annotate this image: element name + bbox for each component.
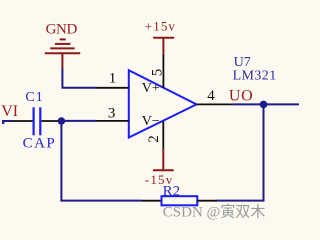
wire junction down to resistor xyxy=(61,121,142,201)
pin 3 xyxy=(96,120,129,122)
pin 1 xyxy=(96,87,128,89)
wire junction to pin3 xyxy=(61,120,96,122)
svg-text:UO: UO xyxy=(229,87,254,104)
capacitor C1 left pin xyxy=(13,120,33,122)
resistor R2 left pin xyxy=(142,200,162,202)
svg-text:3: 3 xyxy=(108,106,116,122)
capacitor C1 plates xyxy=(34,107,41,135)
pin 2 xyxy=(162,121,164,148)
junction node A xyxy=(58,117,66,125)
svg-text:LM321: LM321 xyxy=(233,69,277,84)
wire output xyxy=(233,103,299,105)
resistor R2 body xyxy=(162,196,198,205)
svg-text:R2: R2 xyxy=(163,183,181,199)
op-amp U7 triangle xyxy=(129,70,197,137)
svg-text:VI: VI xyxy=(1,103,18,120)
svg-text:GND: GND xyxy=(46,21,78,37)
svg-text:CSDN @寅双木: CSDN @寅双木 xyxy=(163,203,266,220)
power -15v xyxy=(153,149,174,171)
svg-text:2: 2 xyxy=(146,135,162,143)
capacitor C1 right pin xyxy=(42,120,60,122)
pin 5 xyxy=(162,54,164,88)
power +15v xyxy=(153,38,174,54)
svg-text:V+: V+ xyxy=(142,81,160,96)
junction node UO xyxy=(260,101,268,109)
wire resistor to output xyxy=(217,104,264,200)
svg-text:+15v: +15v xyxy=(145,19,176,34)
svg-text:V−: V− xyxy=(142,114,160,129)
wire gnd to pin1 xyxy=(62,69,96,88)
ground xyxy=(45,39,80,68)
svg-text:C1: C1 xyxy=(25,90,43,105)
wire VI xyxy=(2,120,13,122)
svg-text:5: 5 xyxy=(150,69,166,77)
pin 4 xyxy=(197,103,233,105)
svg-text:CAP: CAP xyxy=(23,136,57,152)
svg-text:4: 4 xyxy=(207,88,215,104)
resistor R2 right pin xyxy=(197,200,217,202)
svg-text:1: 1 xyxy=(109,71,117,87)
wire end stub xyxy=(2,121,4,124)
